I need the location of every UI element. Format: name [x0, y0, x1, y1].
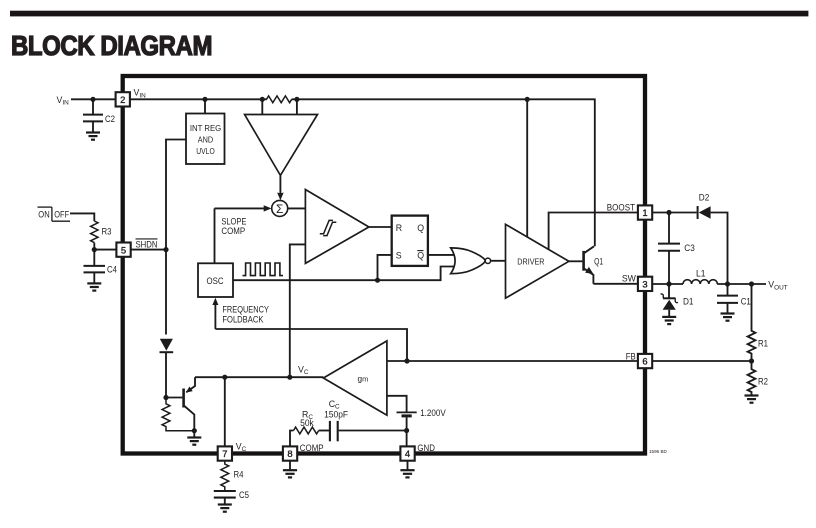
svg-text:VC: VC [298, 364, 309, 376]
resistor R2 [748, 361, 756, 395]
svg-text:50k: 50k [300, 418, 314, 428]
svg-text:UVLO: UVLO [196, 146, 215, 156]
svg-text:gm: gm [358, 375, 369, 384]
resistor R3 [91, 221, 98, 243]
transistor Q1 [582, 251, 585, 271]
svg-text:Q: Q [417, 250, 424, 260]
svg-text:FOLDBACK: FOLDBACK [222, 314, 263, 324]
wire FB to gm [387, 360, 638, 362]
svg-text:BOOST: BOOST [607, 203, 636, 213]
driver amp [506, 224, 569, 298]
svg-text:VC: VC [236, 441, 247, 453]
node FB divider junction [749, 358, 754, 363]
wire INT REG to SHDN/foldback rail [166, 140, 186, 335]
wire sense amp output to sigma [279, 175, 281, 194]
node Q2 base junction [163, 395, 168, 400]
ground D1 [662, 316, 676, 318]
capacitor C3 [668, 213, 670, 244]
IC outline box [123, 76, 645, 454]
wire L1 to VOUT [717, 283, 766, 285]
svg-text:1596 BD: 1596 BD [649, 449, 668, 454]
svg-text:SW: SW [622, 273, 637, 283]
node rail sense left [260, 97, 265, 102]
svg-text:GND: GND [417, 443, 435, 453]
svg-text:Q: Q [417, 223, 424, 233]
ground pin 4 [407, 461, 409, 470]
ground pin 8 [289, 461, 291, 470]
ground Q2 [193, 431, 195, 438]
capacitor C1 [727, 284, 729, 295]
wire VC to comparator lower input [290, 244, 306, 377]
node rail INT REG tap [202, 97, 207, 102]
svg-text:6: 6 [642, 356, 647, 367]
compensation RC CC [290, 431, 294, 447]
wire VC to pin 7 [224, 377, 226, 446]
node C1 junction [725, 281, 730, 286]
svg-text:C5: C5 [239, 490, 249, 500]
error amp gm [323, 341, 387, 415]
svg-text:INT REG: INT REG [190, 123, 222, 133]
node VC pin tap [222, 375, 227, 380]
node VIN input junction [90, 97, 95, 102]
wire SW external [652, 283, 683, 285]
wire ON/OFF to R3 [70, 213, 94, 221]
svg-text:OSC: OSC [207, 276, 225, 286]
resistor R4 [221, 461, 229, 491]
resistor Q2 base [162, 398, 194, 431]
diode D1 schottky [668, 284, 670, 298]
oscillator OSC [198, 263, 233, 297]
node BOOST/C3 junction [666, 210, 671, 215]
svg-text:C4: C4 [107, 265, 117, 275]
svg-text:4: 4 [405, 448, 410, 459]
inductor L1 [683, 280, 717, 284]
node foldback tap [404, 358, 409, 363]
pin 1 BOOST [638, 205, 652, 219]
capacitor C5 [214, 490, 236, 492]
pin 8 COMP [283, 446, 297, 460]
ground R2 [745, 394, 759, 396]
NOR gate [451, 248, 486, 274]
svg-text:1.200V: 1.200V [420, 408, 446, 418]
wire VIN rail [130, 98, 267, 100]
svg-text:C3: C3 [684, 243, 695, 253]
svg-text:BLOCK DIAGRAM: BLOCK DIAGRAM [11, 30, 212, 61]
node SHDN junction [163, 247, 168, 252]
svg-text:R3: R3 [102, 226, 112, 236]
svg-text:2: 2 [120, 94, 125, 105]
capacitor C2 [92, 99, 94, 114]
svg-text:S: S [396, 250, 402, 260]
wire NOR out to driver [490, 260, 505, 262]
wire frequency foldback [215, 329, 407, 361]
wire VIN input [71, 98, 116, 100]
svg-text:DRIVER: DRIVER [517, 256, 544, 266]
svg-text:VOUT: VOUT [768, 280, 787, 292]
pin 7 VC [218, 446, 232, 460]
svg-text:150pF: 150pF [324, 409, 349, 419]
pin 2 VIN [116, 92, 130, 106]
svg-text:R: R [396, 223, 402, 233]
wire sigma to comparator [287, 207, 305, 209]
wire FB external [652, 360, 751, 362]
svg-text:SLOPE: SLOPE [221, 216, 246, 226]
wire BOOST external [652, 212, 696, 214]
svg-text:R2: R2 [758, 377, 768, 387]
pin 4 GND [400, 446, 414, 460]
pin 5 SHDN [116, 243, 130, 257]
node rail sense right [294, 97, 299, 102]
node SHDN external junction [92, 247, 97, 252]
svg-text:SHDN: SHDN [136, 239, 158, 249]
svg-text:AND: AND [198, 135, 213, 145]
node rail driver tap [525, 97, 530, 102]
svg-text:FB: FB [626, 352, 636, 362]
svg-text:COMP: COMP [221, 226, 245, 236]
latch RS flip-flop [392, 216, 428, 266]
svg-text:5: 5 [121, 244, 126, 255]
transistor Q2 [182, 389, 185, 408]
svg-text:VIN: VIN [57, 95, 70, 107]
svg-text:C2: C2 [105, 114, 115, 124]
wire to pin 5 [94, 249, 116, 251]
svg-text:D2: D2 [699, 192, 710, 202]
ground C5 [218, 503, 232, 505]
svg-text:C1: C1 [741, 297, 751, 307]
ground C4 [87, 282, 101, 284]
svg-text:OFF: OFF [54, 210, 69, 220]
header bar [10, 11, 808, 17]
arrow frequency foldback into OSC [214, 301, 216, 330]
reference 1.200V [387, 396, 407, 412]
svg-text:7: 7 [222, 448, 227, 459]
wire S input [378, 255, 392, 280]
svg-text:8: 8 [287, 448, 292, 459]
diode shutdown [160, 339, 173, 351]
svg-text:R4: R4 [234, 470, 244, 480]
svg-text:Σ: Σ [276, 202, 283, 216]
wire Qbar to NOR [428, 254, 454, 256]
wire driver supply [526, 99, 528, 237]
node comp network junction [404, 428, 409, 433]
wire pin5 to junction [131, 249, 166, 251]
wire slope comp to sigma [215, 207, 265, 209]
svg-text:3: 3 [642, 279, 647, 290]
svg-text:ON: ON [38, 210, 49, 220]
wire sense amp taps [261, 99, 263, 114]
resistor R1 [748, 284, 756, 361]
pin 3 SW [638, 277, 652, 291]
wire VC line [195, 376, 323, 378]
comparator with hysteresis [305, 190, 369, 264]
ON/OFF logic level symbol [38, 207, 71, 221]
box INT REG AND UVLO [204, 99, 206, 113]
node SW junction [666, 281, 671, 286]
svg-text:COMP: COMP [300, 443, 324, 453]
squarewave symbol [243, 263, 283, 276]
capacitor C4 [93, 250, 95, 266]
svg-text:L1: L1 [696, 268, 706, 278]
svg-text:D1: D1 [683, 297, 694, 307]
svg-text:Q1: Q1 [594, 256, 603, 266]
ground C2 [86, 131, 100, 133]
diode D2 [697, 206, 699, 219]
node Q2 collector junction [192, 428, 197, 433]
wire SW [593, 283, 637, 285]
wire comparator out to latch R [369, 226, 392, 228]
wire OSC output [233, 267, 455, 281]
pin 6 FB [638, 354, 652, 368]
wire BOOST to driver [549, 213, 638, 250]
svg-text:R1: R1 [758, 339, 768, 349]
op-amp current sense [245, 115, 318, 176]
hysteresis symbol [320, 220, 337, 235]
svg-text:VIN: VIN [134, 88, 147, 100]
ground C1 [721, 312, 735, 314]
node S tap [375, 278, 380, 283]
svg-text:1: 1 [642, 207, 647, 218]
node VC comparator tap [287, 375, 292, 380]
svg-text:FREQUENCY: FREQUENCY [222, 304, 269, 314]
summer sigma [272, 200, 288, 216]
node R1 junction [749, 281, 754, 286]
resistor sense (on rail) [267, 96, 292, 103]
